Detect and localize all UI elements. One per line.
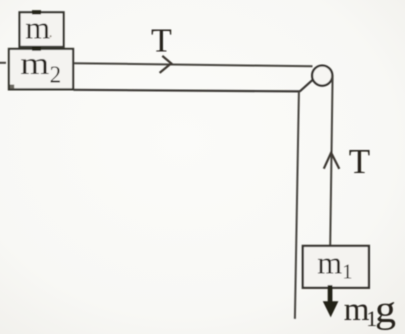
block m (small box on top) [20, 12, 64, 47]
wire: table top surface [74, 90, 300, 92]
svg-text:2: 2 [50, 63, 62, 89]
svg-text:g: g [375, 289, 396, 331]
svg-text:m: m [25, 9, 50, 45]
svg-text:m: m [20, 45, 49, 81]
svg-text:T: T [349, 142, 370, 181]
wire: left margin dash [0, 62, 6, 64]
wire: vertical string from pulley to m1 [330, 75, 332, 246]
arrowhead T (horizontal, open chevron) [160, 56, 172, 73]
wire: table right edge (long vertical) [295, 92, 299, 319]
block m1 (hanging box) [303, 246, 369, 288]
pulley [312, 66, 332, 86]
svg-text:T: T [151, 22, 172, 59]
wire: table corner bevel [300, 78, 315, 91]
block m2 (large box on table) [9, 49, 73, 90]
wire: horizontal string from m2 to pulley [74, 63, 313, 66]
arrowhead T (vertical, open chevron up) [324, 153, 340, 169]
speck after m [50, 35, 52, 37]
arrow m1g (thick weight arrow) [323, 285, 339, 317]
